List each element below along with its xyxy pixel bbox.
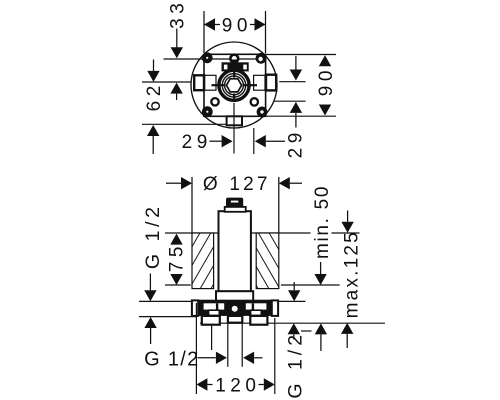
svg-text:62: 62 [144, 81, 165, 111]
square mounting plate 90x90 [204, 54, 266, 116]
bracket end cap left [192, 300, 198, 316]
right slot in plate [254, 75, 265, 90]
dim line 120 left segment [207, 384, 212, 386]
finished surface line left [139, 300, 196, 302]
arrow G1/2 left pointing up [144, 317, 156, 328]
dim line min50 tail [320, 262, 322, 274]
reference line lower hole row right y101 [274, 100, 306, 102]
short extension line left foot [211, 325, 213, 351]
cap base [225, 207, 246, 212]
reference line top hole row y59 [164, 58, 261, 60]
bracket inner box right [251, 310, 262, 315]
extension line right of 90 top dim [265, 11, 267, 53]
lower-left ring [211, 98, 218, 105]
reference line ear center right y82 [279, 81, 305, 83]
tail below min50 up arrow [320, 334, 322, 351]
basic body cylinder [219, 211, 251, 291]
short tick near G1/2 right [301, 330, 312, 332]
tail below G1/2 left up arrow [150, 328, 152, 344]
hatched wall section left [157, 233, 243, 289]
arrow G1/2 bottom pointing left [243, 352, 254, 364]
bracket white slots [204, 303, 225, 309]
tail below max125 up arrow [346, 334, 348, 348]
ceiling top line right of min50 text [332, 232, 360, 234]
bracket foot right [250, 316, 267, 325]
bracket bottom ref line left [139, 316, 196, 318]
collar at finished surface [216, 291, 253, 301]
svg-text:33: 33 [168, 0, 189, 29]
central outer thick ring [219, 70, 249, 100]
svg-text:29: 29 [286, 128, 307, 158]
svg-text:G 1/2: G 1/2 [144, 349, 199, 371]
finished surface line right [274, 300, 306, 302]
top center ring [230, 55, 238, 63]
arrow d127 right pointing left [279, 177, 290, 189]
arrow 33 pointing down [171, 47, 183, 58]
arrow min50 pointing down [314, 274, 326, 285]
dim line G1/2 left tail [149, 274, 151, 291]
extension line d127 right [278, 177, 280, 233]
arrow 33/62 pointing up [170, 83, 182, 94]
extension line center inlet right [241, 323, 243, 367]
svg-text:90: 90 [316, 66, 337, 96]
svg-text:G 1/2: G 1/2 [284, 331, 306, 399]
tail below up arrow 29 right [295, 113, 297, 128]
dim line 62 upper tail [153, 60, 155, 72]
ceiling bottom ref line right [281, 284, 340, 286]
svg-text:max.125: max.125 [342, 230, 363, 318]
bracket inner box left [209, 310, 220, 315]
reference line ear center left y82 [142, 81, 191, 83]
central hexagon [226, 79, 241, 92]
dim line 120 right segment [259, 384, 264, 386]
extension line center inlet left [227, 323, 229, 367]
extension line 120 left [195, 303, 197, 394]
svg-text:75: 75 [167, 242, 188, 272]
extension of plate top edge to right [266, 54, 336, 56]
arrow max125 pointing up [341, 323, 353, 334]
dim line 29 right tail [266, 140, 285, 142]
dim line 62 lower tail [152, 136, 154, 154]
bottom tab [227, 116, 242, 125]
central middle circle [222, 74, 245, 97]
arrow 29 right pointing up [290, 102, 302, 113]
corner screw hole top-left [202, 52, 213, 63]
arrow min50 pointing up [315, 323, 327, 334]
corner screw hole bottom-left [202, 106, 213, 117]
tail above down arrow 29 right [295, 56, 297, 70]
arrow G1/2 left pointing down [144, 290, 156, 301]
dim line 90 top right segment [250, 24, 266, 26]
dim tail G1/2 bottom [198, 357, 216, 359]
ceiling top line left+mid [165, 232, 311, 234]
arrow 75 top [170, 234, 182, 245]
bridge bracket above center [222, 62, 249, 71]
bracket center hole [232, 306, 238, 312]
tail below G1/2 right up arrow [293, 334, 295, 339]
svg-text:min. 50: min. 50 [312, 185, 333, 259]
arrow 120 right [264, 378, 275, 390]
crosshair tick left [212, 84, 226, 86]
arrow max125 pointing down [341, 222, 353, 233]
dim line max125 upper tail [347, 211, 349, 222]
svg-text:120: 120 [215, 375, 260, 396]
arrow d127 left pointing right [181, 177, 192, 189]
arrow G1/2 right pointing down [288, 290, 300, 301]
dim line 33 [176, 29, 178, 49]
center line down to 29 dim [233, 103, 235, 154]
arrow left of 90 top [204, 18, 215, 30]
dim line 29 left tail [210, 140, 222, 142]
feet bottom ref line right [200, 322, 385, 324]
cap top black [226, 198, 243, 208]
bracket main bar [198, 300, 272, 316]
arrow 75 bottom [170, 274, 182, 285]
left ear tab [194, 75, 204, 90]
arrow 62 bottom pointing up [147, 125, 159, 136]
arrow 90 right bottom [319, 105, 331, 116]
reference line tab bottom y124 [142, 123, 227, 125]
dim tail d127 left [166, 182, 181, 184]
svg-text:Ø 127: Ø 127 [203, 174, 271, 195]
arrow right of 90 top [255, 18, 266, 30]
extension line d127 left [191, 177, 193, 233]
svg-text:G 1/2: G 1/2 [142, 203, 164, 269]
extension line left of 90 top dim [203, 11, 205, 53]
crosshair tick top [233, 70, 235, 78]
arrow 90 right top [319, 55, 331, 66]
dim line G1/2 right upper tail [293, 282, 295, 290]
lower-right ring [251, 98, 258, 105]
corner screw hole bottom-right [257, 107, 268, 118]
arrow 29 right pointing down [290, 70, 302, 81]
bracket foot center [228, 316, 242, 323]
extension line 120 right [274, 318, 276, 394]
bracket foot left [202, 316, 220, 325]
crosshair tick right [244, 84, 258, 86]
dim tail d127 right [290, 182, 302, 184]
arrow 62 top pointing down [147, 71, 159, 82]
arrow 120 left [196, 378, 207, 390]
svg-text:90: 90 [222, 16, 252, 37]
arrow G1/2 bottom pointing right [216, 352, 227, 364]
central inner circle [225, 76, 244, 95]
bracket end cap right [272, 300, 278, 316]
right ear tab [266, 75, 276, 91]
extension of plate bottom edge to right [266, 115, 336, 117]
hatched wall section right [226, 233, 301, 289]
arrow 29 pointing right [222, 135, 233, 147]
flange circle d127 [191, 42, 277, 128]
arrow 29 pointing left [255, 135, 266, 147]
left slot in plate [205, 75, 216, 90]
corner screw hole top-right [256, 53, 267, 64]
tail below up arrow [176, 94, 178, 100]
crosshair tick bottom [233, 94, 235, 102]
ceiling bottom ref line left [165, 284, 191, 286]
dim tail right of center inlet [254, 357, 262, 359]
arrow G1/2 right pointing up [288, 323, 300, 334]
svg-text:29: 29 [182, 132, 212, 153]
dim line 90 top left segment [204, 24, 220, 26]
extension line lower-right hole x254 [253, 128, 255, 154]
